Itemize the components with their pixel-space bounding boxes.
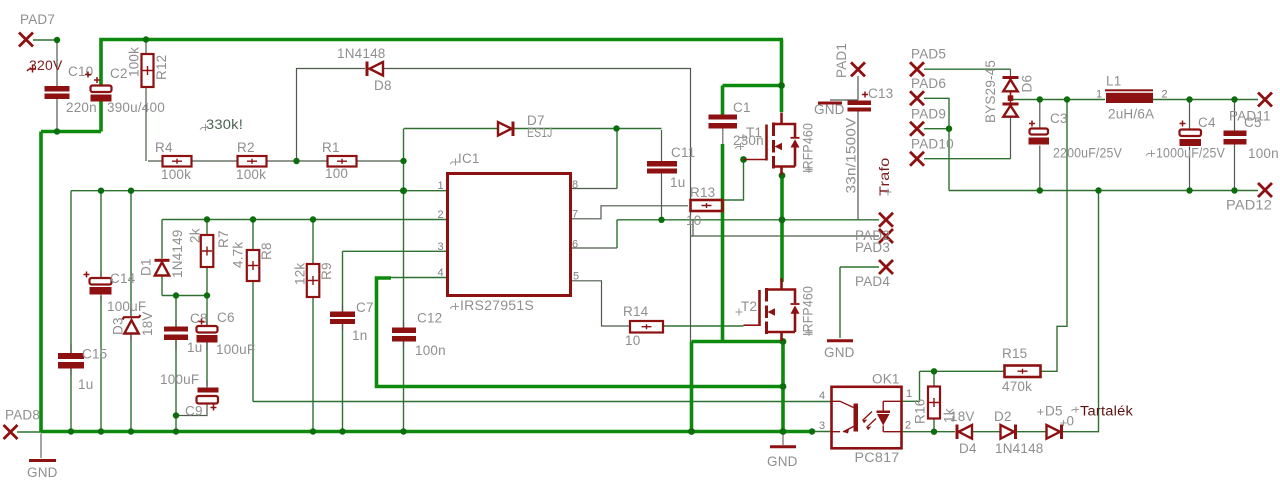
svg-text:1u: 1u <box>670 175 685 190</box>
svg-text:IRFP460: IRFP460 <box>801 123 816 173</box>
svg-text:PAD9: PAD9 <box>911 107 946 122</box>
svg-text:5: 5 <box>573 271 579 283</box>
svg-text:T2: T2 <box>741 299 757 314</box>
svg-text:C4: C4 <box>1198 115 1216 130</box>
svg-text:PC817: PC817 <box>855 450 900 465</box>
svg-text:1k: 1k <box>942 408 957 423</box>
svg-text:C10: C10 <box>68 64 93 79</box>
svg-text:4: 4 <box>438 267 444 279</box>
svg-text:PAD6: PAD6 <box>911 76 946 91</box>
svg-text:PAD1: PAD1 <box>834 43 849 78</box>
svg-text:C13: C13 <box>868 86 893 101</box>
svg-text:PAD7: PAD7 <box>20 12 55 27</box>
svg-text:33n/1500V: 33n/1500V <box>844 118 859 194</box>
svg-text:100n: 100n <box>1248 146 1279 161</box>
svg-text:Tartalék: Tartalék <box>1080 404 1133 419</box>
svg-text:390u/400: 390u/400 <box>107 100 165 115</box>
svg-text:PAD10: PAD10 <box>911 137 954 152</box>
svg-text:PAD4: PAD4 <box>855 274 890 289</box>
svg-text:C8: C8 <box>190 311 208 326</box>
svg-text:7: 7 <box>572 209 578 221</box>
svg-text:8: 8 <box>572 179 578 191</box>
svg-text:18V: 18V <box>140 311 155 336</box>
svg-text:D5: D5 <box>1045 404 1063 419</box>
svg-text:R16: R16 <box>913 399 928 424</box>
svg-text:C7: C7 <box>356 300 374 315</box>
svg-text:BYS29-45: BYS29-45 <box>983 60 998 123</box>
svg-text:3: 3 <box>438 241 444 253</box>
svg-text:100uF: 100uF <box>216 342 255 357</box>
svg-text:6: 6 <box>572 239 578 251</box>
svg-text:10: 10 <box>686 213 701 228</box>
svg-text:2200uF/25V: 2200uF/25V <box>1053 146 1122 161</box>
svg-text:1: 1 <box>906 388 912 400</box>
svg-text:R12: R12 <box>154 55 169 80</box>
svg-text:R7: R7 <box>216 230 231 248</box>
svg-text:D4: D4 <box>959 441 977 456</box>
svg-text:PAD11: PAD11 <box>1229 109 1271 124</box>
svg-text:C14: C14 <box>110 271 136 286</box>
svg-text:GND: GND <box>767 454 798 469</box>
svg-text:IRS27951S: IRS27951S <box>460 298 534 313</box>
svg-text:R1: R1 <box>322 140 340 155</box>
svg-text:T1: T1 <box>746 125 762 140</box>
svg-text:1N4148: 1N4148 <box>337 46 386 61</box>
svg-text:10: 10 <box>625 333 640 348</box>
svg-text:12k: 12k <box>293 263 308 285</box>
svg-text:1n: 1n <box>352 328 367 343</box>
svg-text:100k: 100k <box>236 167 266 182</box>
svg-text:D3: D3 <box>111 317 126 335</box>
svg-text:IC1: IC1 <box>458 151 480 166</box>
svg-text:C11: C11 <box>671 145 695 160</box>
svg-text:R15: R15 <box>1002 346 1027 361</box>
svg-text:1N4148: 1N4148 <box>995 441 1044 456</box>
svg-text:1000uF/25V: 1000uF/25V <box>1156 146 1225 161</box>
svg-text:2uH/6A: 2uH/6A <box>1108 107 1154 122</box>
svg-text:2k: 2k <box>188 228 203 243</box>
svg-text:2: 2 <box>438 209 444 221</box>
svg-text:Trafo: Trafo <box>877 158 892 197</box>
svg-text:0: 0 <box>1067 414 1075 429</box>
svg-text:D1: D1 <box>139 258 154 276</box>
svg-text:C6: C6 <box>217 310 235 325</box>
svg-text:IRFP460: IRFP460 <box>801 286 816 336</box>
svg-text:4: 4 <box>819 390 825 402</box>
svg-text:1N4149: 1N4149 <box>170 230 185 279</box>
svg-text:PAD3: PAD3 <box>855 240 890 255</box>
svg-text:C1: C1 <box>733 100 751 115</box>
svg-text:R2: R2 <box>237 140 255 155</box>
svg-text:C2: C2 <box>110 66 128 81</box>
svg-text:100: 100 <box>325 166 348 181</box>
svg-text:1: 1 <box>438 180 444 192</box>
svg-text:GND: GND <box>814 102 845 117</box>
svg-text:C9: C9 <box>185 404 203 419</box>
svg-text:R9: R9 <box>319 262 334 280</box>
svg-text:100k: 100k <box>127 47 142 77</box>
svg-text:2: 2 <box>1162 89 1168 101</box>
svg-text:PAD12: PAD12 <box>1226 198 1272 213</box>
svg-text:2: 2 <box>905 420 911 432</box>
svg-text:320V: 320V <box>29 58 63 73</box>
svg-text:1u: 1u <box>187 340 202 355</box>
svg-text:GND: GND <box>824 345 855 360</box>
svg-text:R13: R13 <box>690 185 715 200</box>
svg-text:C12: C12 <box>417 311 442 326</box>
svg-text:PAD5: PAD5 <box>911 47 946 62</box>
svg-text:D8: D8 <box>374 78 392 93</box>
svg-text:R4: R4 <box>155 140 173 155</box>
svg-text:PAD8: PAD8 <box>5 408 40 423</box>
svg-text:ES1J: ES1J <box>527 125 553 140</box>
svg-text:R14: R14 <box>623 304 649 319</box>
svg-text:D2: D2 <box>994 409 1012 424</box>
svg-text:1u: 1u <box>78 377 93 392</box>
svg-text:C15: C15 <box>82 347 107 362</box>
svg-text:4.7k: 4.7k <box>231 242 246 268</box>
svg-text:1: 1 <box>1096 89 1102 101</box>
svg-text:GND: GND <box>27 465 58 480</box>
svg-text:470k: 470k <box>1002 379 1032 394</box>
svg-text:100k: 100k <box>161 167 191 182</box>
svg-text:100uF: 100uF <box>160 372 199 387</box>
svg-text:3: 3 <box>819 420 825 432</box>
svg-text:OK1: OK1 <box>872 372 900 387</box>
svg-text:100n: 100n <box>415 343 446 358</box>
svg-text:R8: R8 <box>259 242 274 260</box>
svg-text:330k!: 330k! <box>206 117 243 132</box>
svg-text:L1: L1 <box>1106 74 1121 89</box>
svg-text:D6: D6 <box>1020 75 1035 93</box>
svg-text:C3: C3 <box>1050 111 1068 126</box>
svg-text:220n: 220n <box>66 100 97 115</box>
